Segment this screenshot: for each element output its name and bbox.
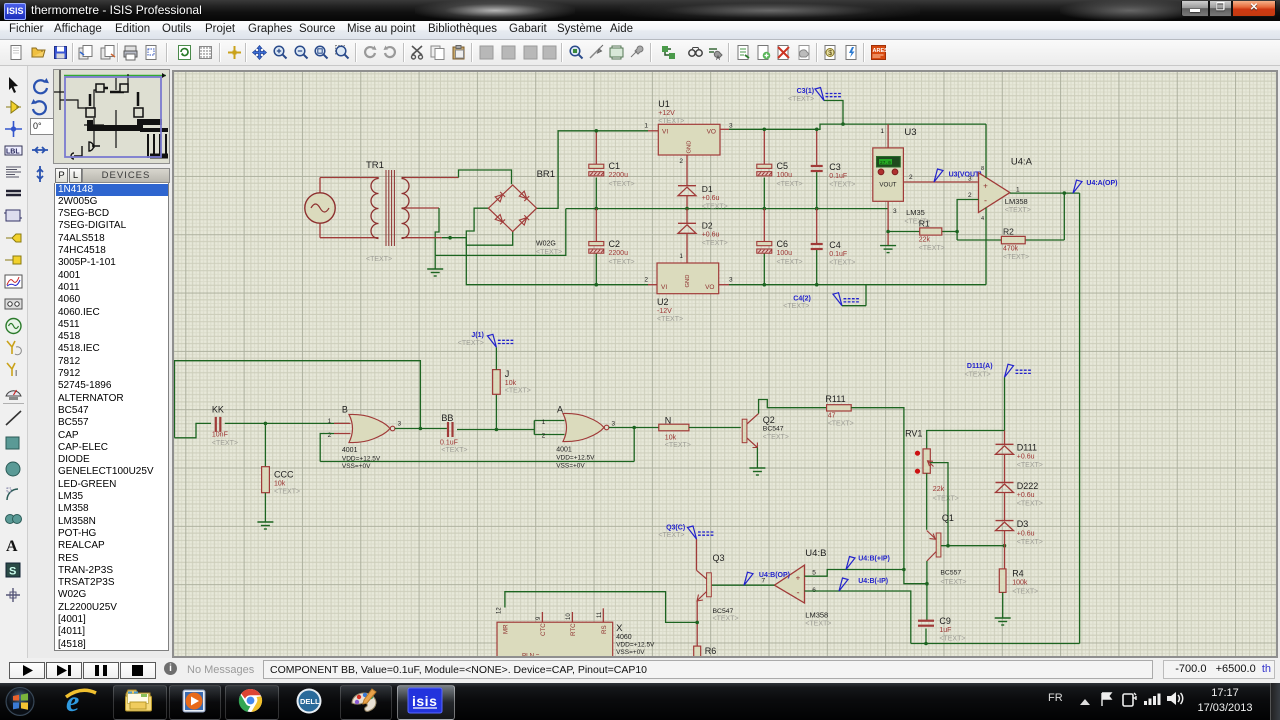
- wire X MR to Q3 emitter: [505, 592, 697, 623]
- svg-text:U2: U2: [657, 297, 669, 307]
- resistor R6: [694, 646, 701, 658]
- svg-text:<TEXT>: <TEXT>: [702, 204, 728, 211]
- svg-text:R2: R2: [1003, 227, 1014, 237]
- ground: [749, 468, 765, 475]
- transistor Q2: [742, 419, 747, 443]
- svg-text:MR: MR: [503, 624, 510, 634]
- NOR gate B: [349, 414, 390, 442]
- svg-text:8: 8: [981, 166, 984, 172]
- svg-text:C2: C2: [609, 239, 621, 249]
- junction: [595, 129, 599, 133]
- svg-text:-12V: -12V: [657, 308, 672, 315]
- svg-text:DELL: DELL: [300, 697, 320, 706]
- wire Q2 collector: [759, 400, 827, 414]
- svg-text:<TEXT>: <TEXT>: [939, 636, 965, 643]
- svg-text:<TEXT>: <TEXT>: [536, 249, 562, 256]
- junction: [685, 207, 689, 211]
- svg-text:47: 47: [828, 413, 836, 420]
- svg-text:X: X: [616, 623, 623, 634]
- net bottom rail: [911, 643, 1080, 645]
- svg-text:W02G: W02G: [536, 241, 556, 248]
- svg-text:<TEXT>: <TEXT>: [713, 616, 739, 623]
- svg-text:<TEXT>: <TEXT>: [657, 316, 683, 323]
- wire U3 GND pin3: [887, 201, 889, 245]
- svg-text:22k: 22k: [933, 486, 945, 493]
- svg-text:10k: 10k: [665, 435, 677, 442]
- wire Q3 emitter to R6: [696, 601, 698, 647]
- svg-text:VDD=+12.5V: VDD=+12.5V: [616, 642, 655, 649]
- wire: [406, 177, 459, 179]
- svg-text:2: 2: [968, 192, 972, 199]
- capacitor C1: [589, 164, 604, 176]
- capacitor BB: [448, 422, 453, 437]
- svg-text:D3: D3: [1017, 519, 1029, 529]
- svg-text:4: 4: [981, 216, 984, 222]
- probe J(1): [487, 334, 514, 347]
- probe Q3(C): [688, 526, 715, 539]
- wire +IP node: [904, 570, 927, 621]
- svg-text:100u: 100u: [777, 250, 793, 257]
- svg-text:<TEXT>: <TEXT>: [805, 621, 831, 628]
- svg-text:3: 3: [729, 277, 733, 284]
- wire U3 pin1: [887, 124, 889, 148]
- svg-text:<TEXT>: <TEXT>: [933, 496, 959, 503]
- wire gate A input bracket: [533, 421, 535, 435]
- wire: [434, 255, 436, 269]
- regulator U1 7812: [658, 124, 720, 155]
- svg-text:<TEXT>: <TEXT>: [1003, 254, 1029, 261]
- op-amp U4:B: [774, 565, 804, 603]
- svg-text:BC547: BC547: [713, 608, 734, 615]
- wire X pin stubs: [541, 612, 543, 622]
- svg-text:U4:B: U4:B: [805, 548, 826, 559]
- svg-text:C3: C3: [829, 162, 841, 172]
- svg-text:VDD=+12.5V: VDD=+12.5V: [556, 455, 595, 462]
- svg-text:<TEXT>: <TEXT>: [828, 421, 854, 428]
- wire C1 bottom lead: [595, 178, 597, 209]
- svg-text:VSS=+0V: VSS=+0V: [556, 462, 585, 469]
- svg-text:<TEXT>: <TEXT>: [763, 434, 789, 441]
- svg-text:<TEXT>: <TEXT>: [1012, 589, 1038, 596]
- wire U4:A pin8 power: [985, 124, 987, 178]
- svg-text:-: -: [797, 588, 800, 598]
- svg-text:BB: BB: [441, 413, 453, 423]
- wire U2 pins: [648, 284, 657, 286]
- svg-text:D111: D111: [1017, 443, 1037, 453]
- svg-text:A: A: [716, 56, 720, 61]
- svg-text:C9: C9: [939, 616, 951, 626]
- svg-text:2: 2: [909, 174, 913, 181]
- NOR gate A: [563, 413, 604, 441]
- svg-text:<TEXT>: <TEXT>: [274, 489, 300, 496]
- svg-text:C4(2): C4(2): [793, 296, 811, 303]
- svg-text:<TEXT>: <TEXT>: [441, 447, 467, 454]
- svg-text:100k: 100k: [1012, 580, 1028, 587]
- probe U4:B(OP): [744, 572, 753, 585]
- svg-text:100u: 100u: [777, 172, 793, 179]
- svg-text:<TEXT>: <TEXT>: [702, 240, 728, 247]
- wire U4:A -in: [957, 200, 978, 241]
- svg-text:27.0: 27.0: [880, 160, 891, 166]
- wire J top lead: [495, 348, 497, 370]
- svg-text:<TEXT>: <TEXT>: [1017, 462, 1043, 469]
- svg-text:A: A: [557, 405, 563, 415]
- diode D111: [1004, 431, 1006, 445]
- wire: [435, 208, 439, 255]
- svg-text:3: 3: [729, 123, 733, 130]
- wire CCC top lead: [264, 423, 266, 466]
- menu bar: [0, 21, 1280, 40]
- svg-text:<TEXT>: <TEXT>: [609, 181, 635, 188]
- svg-text:LM35: LM35: [906, 208, 925, 217]
- svg-text:4001: 4001: [556, 447, 572, 454]
- svg-text:<TEXT>: <TEXT>: [1017, 539, 1043, 546]
- svg-text:Q2: Q2: [763, 415, 775, 425]
- svg-text:<TEXT>: <TEXT>: [777, 181, 803, 188]
- wire Q1 collector: [926, 561, 928, 584]
- svg-text:4060: 4060: [616, 634, 632, 641]
- net -12V rail: [729, 284, 986, 286]
- svg-text:CTC: CTC: [540, 623, 547, 636]
- probe C4(2): [833, 293, 860, 306]
- wire: [686, 209, 688, 224]
- capacitor C9: [925, 629, 927, 644]
- svg-text:1: 1: [1016, 187, 1020, 194]
- wire U3 VOUT pin2: [903, 181, 977, 183]
- wire D111(A) riser: [1004, 377, 1006, 430]
- wire U4:B -in pin6: [805, 591, 911, 644]
- svg-text:+0.6u: +0.6u: [1017, 454, 1035, 461]
- wire: [686, 233, 688, 263]
- wire gate B output: [395, 428, 447, 430]
- svg-text:<TEXT>: <TEXT>: [777, 259, 803, 266]
- net 0V rail: [566, 208, 888, 210]
- wire: [1004, 531, 1006, 569]
- svg-text:GND: GND: [685, 275, 691, 288]
- svg-text:+: +: [983, 182, 988, 191]
- capacitor C6: [763, 209, 765, 242]
- svg-text:1: 1: [679, 253, 683, 260]
- svg-text:1uF: 1uF: [939, 627, 951, 634]
- svg-text:D111(A): D111(A): [967, 363, 993, 370]
- wire: [537, 131, 648, 209]
- junction: [448, 236, 452, 240]
- svg-text:10: 10: [566, 613, 572, 620]
- wire RV1 bottom to Q1 emitter: [926, 473, 928, 530]
- svg-text:C4: C4: [829, 240, 841, 250]
- diode D2: [678, 223, 696, 233]
- wire: [225, 422, 349, 424]
- status bar: [0, 658, 1280, 683]
- svg-text:BC557: BC557: [940, 570, 961, 577]
- capacitor C3: [816, 129, 818, 166]
- svg-text:PLN =: PLN =: [522, 653, 540, 657]
- ground: [995, 618, 1011, 625]
- svg-text:<TEXT>: <TEXT>: [658, 118, 684, 125]
- svg-text:RS: RS: [601, 625, 608, 634]
- svg-text:<TEXT>: <TEXT>: [609, 259, 635, 266]
- net +12V rail: [729, 124, 986, 129]
- counter X 4060: [497, 622, 613, 658]
- capacitor C4: [816, 209, 818, 244]
- svg-text:2: 2: [542, 433, 546, 440]
- wire CCC bottom lead: [264, 493, 266, 522]
- wire R2 feedback riser: [1063, 193, 1065, 240]
- svg-text:<TEXT>: <TEXT>: [940, 579, 966, 586]
- svg-text:VI: VI: [661, 284, 667, 291]
- svg-text:+: +: [796, 574, 801, 583]
- wire: [459, 170, 512, 184]
- svg-text:2200u: 2200u: [609, 172, 629, 179]
- svg-text:1: 1: [542, 419, 546, 426]
- wire gate B feedback pin2: [320, 434, 334, 462]
- junction: [595, 207, 599, 211]
- toolbar: [0, 40, 1280, 66]
- sensor U3 LM35: [873, 148, 904, 201]
- svg-text:10k: 10k: [505, 380, 517, 387]
- svg-text:S: S: [9, 565, 16, 577]
- svg-text:4001: 4001: [342, 447, 358, 454]
- svg-text:U4:A: U4:A: [1011, 157, 1033, 168]
- svg-text:2: 2: [644, 277, 648, 284]
- svg-text:<TEXT>: <TEXT>: [1017, 500, 1043, 507]
- probe U3(VOUT): [934, 169, 943, 182]
- svg-text:R111: R111: [825, 394, 845, 404]
- wire C4(2) tap: [865, 285, 867, 306]
- svg-text:<TEXT>: <TEXT>: [505, 388, 531, 395]
- svg-text:D1: D1: [702, 184, 713, 194]
- capacitor C2: [589, 242, 604, 254]
- svg-text:10k: 10k: [274, 481, 286, 488]
- svg-text:VO: VO: [705, 284, 714, 291]
- wire U4:B +in pin5: [805, 570, 904, 577]
- svg-text:J(1): J(1): [471, 332, 483, 339]
- svg-text:C5: C5: [777, 161, 789, 171]
- svg-text:1: 1: [880, 128, 884, 135]
- diode D1: [678, 186, 696, 196]
- edit window: [172, 70, 1278, 658]
- svg-text:Q3(C): Q3(C): [666, 525, 685, 532]
- wire: [466, 208, 648, 285]
- svg-text:N: N: [665, 416, 672, 426]
- svg-text:LM358: LM358: [1005, 197, 1028, 206]
- svg-text:R1: R1: [919, 219, 930, 229]
- wire U4:B output to Q3 base: [712, 584, 775, 586]
- ground: [880, 246, 896, 253]
- title bar: [0, 0, 1280, 21]
- svg-text:D2: D2: [702, 221, 713, 231]
- diode D222: [996, 483, 1014, 493]
- wire: [1004, 493, 1006, 521]
- svg-text:U4:B(+IP): U4:B(+IP): [858, 556, 890, 563]
- svg-text:VSS=+0V: VSS=+0V: [342, 463, 371, 470]
- regulator U2 7912: [657, 263, 719, 294]
- svg-text:10nF: 10nF: [212, 432, 228, 439]
- wire: [686, 196, 688, 209]
- taskbar: [0, 683, 1280, 720]
- svg-text:<TEXT>: <TEXT>: [366, 256, 392, 263]
- svg-text:BR1: BR1: [537, 169, 555, 180]
- svg-text:U3(VOUT): U3(VOUT): [949, 172, 982, 179]
- svg-text:C1: C1: [609, 161, 621, 171]
- svg-text:<TEXT>: <TEXT>: [965, 372, 991, 379]
- svg-text:<TEXT>: <TEXT>: [658, 532, 684, 539]
- wire Q3 collector: [696, 539, 698, 570]
- svg-text:0.1uF: 0.1uF: [440, 440, 458, 447]
- wire gate B pin stubs: [334, 422, 351, 424]
- svg-text:A: A: [6, 538, 18, 555]
- svg-text:<TEXT>: <TEXT>: [829, 260, 855, 267]
- wire R111 to node: [851, 408, 904, 570]
- diode D3: [996, 521, 1014, 531]
- AC source V1: [305, 193, 335, 223]
- wire BB to gate A: [457, 429, 534, 431]
- resistor CCC: [262, 467, 270, 493]
- svg-text:<TEXT>: <TEXT>: [458, 340, 484, 347]
- wire: [319, 178, 321, 193]
- svg-text:<TEXT>: <TEXT>: [788, 96, 814, 103]
- svg-text:Q3: Q3: [713, 553, 725, 563]
- wire U4:A pin4 power: [985, 208, 987, 285]
- resistor J: [493, 370, 501, 395]
- junction: [264, 422, 268, 426]
- svg-text:RTC: RTC: [570, 623, 577, 636]
- svg-text:0.1uF: 0.1uF: [829, 173, 847, 180]
- svg-text:GND: GND: [687, 141, 693, 154]
- svg-text:KK: KK: [212, 405, 224, 415]
- wire gate A output feedback riser: [633, 428, 635, 462]
- junction: [595, 283, 599, 287]
- wire: [406, 207, 440, 209]
- transistor Q3: [707, 573, 712, 597]
- svg-text:VO: VO: [707, 129, 716, 136]
- wire Q1 base: [941, 545, 1005, 547]
- svg-text:ARES: ARES: [873, 48, 888, 54]
- resistor R4: [999, 569, 1006, 593]
- svg-text:J: J: [505, 369, 510, 379]
- svg-text:<TEXT>: <TEXT>: [829, 182, 855, 189]
- junction: [419, 427, 423, 431]
- svg-text:22k: 22k: [919, 237, 931, 244]
- left tool strip: [0, 66, 28, 658]
- op-amp U4:A: [979, 173, 1010, 213]
- wire: [1004, 454, 1006, 482]
- svg-text:U4:A(OP): U4:A(OP): [1086, 180, 1117, 187]
- svg-text:U4:B(OP): U4:B(OP): [759, 572, 790, 579]
- svg-text:+0.6u: +0.6u: [1017, 492, 1035, 499]
- svg-text:0.1uF: 0.1uF: [829, 251, 847, 258]
- svg-text:470k: 470k: [1003, 246, 1019, 253]
- svg-text:VSS=+0V: VSS=+0V: [616, 649, 645, 656]
- svg-text:1: 1: [328, 418, 332, 425]
- svg-text:C3(1): C3(1): [797, 88, 815, 95]
- probe U4:B(-IP): [839, 578, 848, 591]
- wire: [320, 177, 379, 179]
- wire C2 bottom lead: [595, 254, 597, 285]
- wire Q2 emitter: [756, 448, 758, 469]
- svg-text:$: $: [828, 50, 832, 57]
- transformer TR1: [371, 170, 409, 246]
- svg-text:I: I: [15, 369, 17, 378]
- svg-text:VOUT: VOUT: [879, 182, 896, 189]
- svg-text:3: 3: [612, 421, 616, 428]
- svg-text:1: 1: [644, 123, 648, 130]
- potentiometer RV1: [923, 449, 930, 473]
- wire J bottom lead: [495, 394, 497, 429]
- svg-text:D222: D222: [1017, 481, 1039, 491]
- svg-text:<TEXT>: <TEXT>: [212, 440, 238, 447]
- junction: [495, 428, 499, 432]
- svg-text:B: B: [342, 404, 348, 414]
- svg-text:2200u: 2200u: [609, 250, 629, 257]
- svg-text:C6: C6: [777, 239, 789, 249]
- probe D111(A): [1005, 364, 1032, 377]
- wire R4 bottom: [1002, 592, 1004, 618]
- svg-text:U3: U3: [904, 127, 916, 138]
- svg-text:3: 3: [398, 421, 402, 428]
- capacitor KK: [216, 417, 221, 432]
- probe C3(1): [824, 101, 843, 125]
- svg-text:U1: U1: [658, 99, 670, 109]
- wire U4:A output to bottom rail: [1079, 193, 1081, 643]
- svg-text:-: -: [984, 196, 987, 206]
- svg-text:+0.6u: +0.6u: [702, 195, 720, 202]
- capacitor C5: [763, 129, 765, 164]
- svg-text:<TEXT>: <TEXT>: [919, 245, 945, 252]
- svg-text:U4:B(-IP): U4:B(-IP): [858, 578, 888, 585]
- wire gate A output: [609, 427, 659, 429]
- svg-text:LBL: LBL: [6, 148, 20, 155]
- devices: [54, 168, 170, 183]
- wire KK row: [175, 423, 212, 437]
- bridge rectifier BR1: [488, 185, 536, 232]
- ground: [257, 522, 273, 529]
- wire: [320, 237, 379, 239]
- ground: [427, 269, 443, 276]
- transistor Q1: [936, 533, 941, 557]
- wire C1 top lead: [595, 131, 597, 164]
- wire: [442, 232, 513, 246]
- wire U4:A output: [1010, 192, 1080, 194]
- wire feedback top: [175, 361, 421, 438]
- svg-text:3: 3: [893, 208, 897, 215]
- wire N to Q2 base: [689, 427, 741, 429]
- resistor N: [659, 424, 689, 431]
- probe U4:B(+IP): [846, 557, 855, 570]
- svg-text:12: 12: [497, 607, 503, 614]
- resistor R2: [957, 239, 1001, 241]
- svg-text:RV1: RV1: [905, 429, 922, 439]
- svg-text:<TEXT>: <TEXT>: [665, 442, 691, 449]
- svg-text:+0.6u: +0.6u: [702, 232, 720, 239]
- svg-text:+0.6u: +0.6u: [1017, 531, 1035, 538]
- wire: [406, 237, 442, 239]
- net oscillator feedback: [320, 461, 634, 463]
- svg-text:<TEXT>: <TEXT>: [783, 303, 809, 310]
- wire: [319, 223, 321, 238]
- wire RV1 top rail: [927, 431, 1005, 449]
- svg-text:11: 11: [597, 611, 603, 618]
- overview: [53, 69, 170, 164]
- svg-text:3: 3: [968, 176, 972, 183]
- wire U1 pins: [648, 130, 658, 132]
- svg-text:+12V: +12V: [658, 110, 675, 117]
- svg-text:VI: VI: [662, 129, 668, 136]
- svg-text:2: 2: [679, 158, 683, 165]
- svg-text:R4: R4: [1012, 569, 1024, 579]
- resistor R1: [888, 231, 920, 233]
- svg-text:Q1: Q1: [942, 513, 954, 523]
